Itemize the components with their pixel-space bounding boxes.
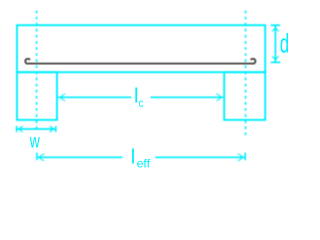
dimension leff arrow left	[37, 155, 41, 159]
reinforcement bar with end hooks	[25, 59, 255, 64]
left support wall	[17, 72, 57, 120]
dimension w left bar	[16, 126, 18, 132]
svg-text:l: l	[131, 147, 135, 169]
dimension w line	[17, 128, 56, 130]
right support wall	[224, 72, 265, 120]
svg-text:c: c	[139, 96, 144, 110]
dimension leff line left segment	[37, 156, 122, 158]
dimension lc line right segment	[151, 96, 224, 98]
dimension w arrow left	[17, 127, 21, 131]
svg-text:eff: eff	[137, 157, 151, 171]
dimension leff line right segment	[155, 156, 244, 158]
dimension d arrow up	[273, 26, 277, 30]
dimension leff arrow right	[241, 155, 245, 159]
dimension leff left bar	[36, 153, 38, 161]
dimension w arrow right	[51, 127, 55, 131]
svg-text:w: w	[29, 131, 40, 152]
dimension lc arrow right	[219, 95, 223, 99]
slab outline	[17, 25, 265, 72]
dimension d top bar	[271, 24, 280, 26]
svg-text:d: d	[280, 29, 289, 59]
dimension d line	[274, 25, 276, 62]
dimension d arrow down	[273, 57, 277, 61]
centerline right support	[245, 11, 247, 139]
dimension leff right bar	[244, 153, 246, 161]
dimension lc line left segment	[58, 96, 131, 98]
dimension lc arrow left	[58, 95, 62, 99]
dimension w right bar	[55, 126, 57, 132]
dimension d bottom bar	[271, 61, 280, 63]
centerline left support	[36, 11, 38, 133]
